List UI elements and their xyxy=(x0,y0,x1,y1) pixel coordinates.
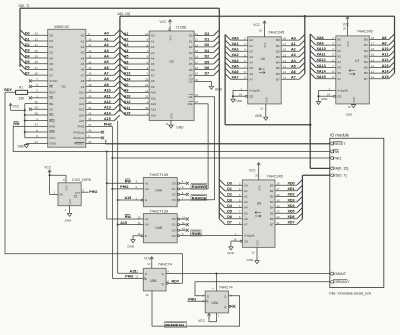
svg-text:A1: A1 xyxy=(81,39,85,43)
svg-text:11: 11 xyxy=(135,275,138,279)
U1 pin 26 D7 xyxy=(20,69,53,77)
bus D vertical right of U2 (down to U8) xyxy=(218,8,220,219)
svg-text:D0: D0 xyxy=(189,34,193,38)
svg-text:D4: D4 xyxy=(49,56,53,60)
svg-text:A13: A13 xyxy=(382,64,389,68)
svg-text:B3: B3 xyxy=(276,55,280,59)
IO module pin RESET xyxy=(330,142,346,146)
svg-text:B6: B6 xyxy=(364,71,368,75)
svg-text:A0: A0 xyxy=(244,183,248,187)
U6 pin 9 XA7 xyxy=(225,74,253,82)
svg-text:A2: A2 xyxy=(104,43,109,47)
svg-text:VCC: VCC xyxy=(49,136,56,140)
svg-text:XD[0..7]: XD[0..7] xyxy=(333,174,346,178)
U4A pin 4 O0 (nc) xyxy=(172,180,189,186)
svg-text:U1: U1 xyxy=(62,85,66,89)
U5A pin 3 C (PHI2) xyxy=(187,297,205,303)
U7 pin 16 B2 -> A10 xyxy=(364,45,394,53)
svg-text:XD4: XD4 xyxy=(288,204,295,208)
svg-text:A2: A2 xyxy=(151,45,155,49)
svg-text:A9: A9 xyxy=(151,85,155,89)
svg-text:XA7: XA7 xyxy=(232,76,239,80)
svg-text:O2: O2 xyxy=(172,193,176,197)
U4A pin 3 A1 (RW) xyxy=(107,179,149,185)
svg-text:A11: A11 xyxy=(79,96,84,100)
svg-text:PHI2: PHI2 xyxy=(125,275,133,279)
oscillator X1 CXO_DIP8 body xyxy=(58,178,91,206)
svg-text:D7: D7 xyxy=(49,73,53,77)
U1 pin 9 A0 xyxy=(81,30,120,38)
svg-text:B0: B0 xyxy=(364,38,368,42)
svg-text:PHI1out: PHI1out xyxy=(73,136,84,140)
svg-text:B6: B6 xyxy=(270,217,274,221)
svg-text:20: 20 xyxy=(259,29,263,33)
U8 pin 5 D3 xyxy=(219,196,248,204)
bus XA junction xyxy=(309,124,312,127)
svg-text:XA12: XA12 xyxy=(317,58,326,62)
svg-text:A0: A0 xyxy=(81,34,85,38)
svg-text:B0: B0 xyxy=(270,183,274,187)
svg-text:IOREADY: IOREADY xyxy=(333,280,350,284)
U6 pin 18 B0 -> A0 xyxy=(276,35,305,43)
U7 pin 19 CE to ground xyxy=(316,90,341,104)
svg-text:A1: A1 xyxy=(291,42,296,46)
svg-text:D0: D0 xyxy=(205,43,210,47)
svg-text:A7: A7 xyxy=(244,223,248,227)
svg-text:XA11: XA11 xyxy=(317,53,326,57)
svg-text:A14: A14 xyxy=(151,113,157,117)
svg-text:74HC245: 74HC245 xyxy=(357,29,373,33)
svg-text:VCC: VCC xyxy=(198,319,205,323)
svg-text:XA4: XA4 xyxy=(232,59,239,63)
svg-text:RDY: RDY xyxy=(4,88,12,92)
svg-text:A0: A0 xyxy=(291,36,296,40)
svg-text:D1: D1 xyxy=(227,187,232,191)
U4B pin 10 O2 (nc) xyxy=(172,227,189,233)
svg-text:R/W: R/W xyxy=(49,125,55,129)
svg-text:XD1: XD1 xyxy=(288,187,295,191)
U2 pin 20 CS to ground xyxy=(188,78,222,92)
svg-text:A[0..15]: A[0..15] xyxy=(118,12,130,16)
decoder U4A 74HCT139 body xyxy=(143,173,177,207)
bus XD right of U8 up to IO module xyxy=(302,175,329,219)
svg-text:REFRESH: REFRESH xyxy=(165,322,184,327)
svg-text:VCC: VCC xyxy=(253,23,260,27)
svg-text:CS: CS xyxy=(188,80,192,84)
svg-text:RAMWE: RAMWE xyxy=(192,184,208,189)
U8 pin 15 B3 -> XD3 xyxy=(270,196,303,204)
svg-text:XD3: XD3 xyxy=(288,198,295,202)
svg-text:E: E xyxy=(145,234,147,238)
svg-text:A6: A6 xyxy=(104,66,109,70)
svg-text:R1: R1 xyxy=(19,86,23,90)
svg-text:A11: A11 xyxy=(151,96,156,100)
U1 pin 3 PHI1out xyxy=(73,134,104,140)
U4A pin 5 O1 -> RAMWE xyxy=(172,185,208,191)
svg-text:RWB: RWB xyxy=(192,231,201,236)
U2 pin 8 A2 xyxy=(120,41,155,49)
svg-text:GND: GND xyxy=(265,97,268,103)
svg-text:A6: A6 xyxy=(337,71,341,75)
U5B pin 9 Q -> IOWAIT xyxy=(166,270,330,275)
svg-text:A3: A3 xyxy=(81,51,85,55)
svg-text:PHI2: PHI2 xyxy=(188,297,196,301)
U1 pin 29 D4 xyxy=(20,52,53,60)
svg-text:A13: A13 xyxy=(79,108,85,112)
svg-text:A7: A7 xyxy=(249,77,253,81)
U6 pin 14 B4 -> A4 xyxy=(276,57,305,65)
U1 pin 24 A14 xyxy=(79,109,120,117)
svg-text:XA14: XA14 xyxy=(317,69,326,73)
svg-text:A8: A8 xyxy=(382,36,387,40)
svg-text:PHI2: PHI2 xyxy=(120,185,128,189)
svg-text:VCC: VCC xyxy=(144,257,151,261)
svg-text:B6: B6 xyxy=(276,72,280,76)
U7 pin 4 XA10 xyxy=(310,45,341,53)
svg-text:B2: B2 xyxy=(270,195,274,199)
power VCC at U5B pin 10 xyxy=(144,257,153,269)
svg-text:74HCT139: 74HCT139 xyxy=(150,173,169,177)
label RAMWE xyxy=(191,183,207,189)
flip-flop U5B 74HC74 body xyxy=(143,263,172,291)
svg-text:A1: A1 xyxy=(249,44,253,48)
U6 pin 7 XA5 xyxy=(225,63,253,71)
svg-text:PHI2: PHI2 xyxy=(333,156,341,160)
svg-text:A0: A0 xyxy=(249,38,253,42)
U5B pin 11 C (PHI2) xyxy=(125,275,138,279)
svg-text:GND: GND xyxy=(236,99,244,103)
svg-text:XA9: XA9 xyxy=(317,41,324,45)
svg-text:A1: A1 xyxy=(145,181,149,185)
svg-text:A2: A2 xyxy=(337,49,341,53)
svg-text:14: 14 xyxy=(165,122,169,126)
svg-text:VCC: VCC xyxy=(249,168,256,172)
svg-text:A1: A1 xyxy=(244,189,248,193)
svg-text:PHI2: PHI2 xyxy=(78,125,85,129)
svg-text:RDY: RDY xyxy=(172,280,180,284)
U1 pin 1 VP xyxy=(29,94,53,100)
U8 pin 9 D7 xyxy=(219,219,248,227)
wire IOREADY net (IO module to U5A D) xyxy=(195,282,330,296)
svg-text:330: 330 xyxy=(18,97,24,101)
svg-text:XD0: XD0 xyxy=(288,182,295,186)
svg-text:A2: A2 xyxy=(244,195,248,199)
svg-text:XD5: XD5 xyxy=(288,210,295,214)
U1 pin 4 IRQ xyxy=(25,117,55,123)
svg-text:U5B: U5B xyxy=(150,279,157,283)
svg-text:CE: CE xyxy=(249,94,253,98)
U8 pin 1 A->B (RWB) xyxy=(235,232,254,238)
svg-text:RW: RW xyxy=(125,215,132,219)
svg-text:VCC: VCC xyxy=(347,41,350,46)
U6 pin 13 B5 -> A5 xyxy=(276,63,305,71)
svg-text:XD6: XD6 xyxy=(288,215,295,219)
svg-text:B3: B3 xyxy=(270,200,274,204)
U2 pin 16 D4 xyxy=(189,53,220,61)
svg-text:VCC: VCC xyxy=(66,185,69,190)
svg-text:74HC74: 74HC74 xyxy=(158,263,173,267)
svg-text:A10: A10 xyxy=(104,89,111,93)
U4A pin 1 E (A15) xyxy=(118,196,147,202)
svg-text:A0: A0 xyxy=(151,34,155,38)
svg-text:A5: A5 xyxy=(249,66,253,70)
svg-text:A3: A3 xyxy=(249,55,253,59)
IO module pin IOWAIT xyxy=(330,272,347,276)
U2 pin 7 A3 xyxy=(120,47,155,55)
IO module pin PHI2 xyxy=(330,156,342,160)
svg-text:A14: A14 xyxy=(79,113,85,117)
svg-text:B1: B1 xyxy=(270,189,274,193)
svg-text:GND: GND xyxy=(170,113,173,119)
svg-text:GND: GND xyxy=(353,97,356,103)
U6 pin 16 B2 -> A2 xyxy=(276,46,305,54)
svg-text:10: 10 xyxy=(348,105,352,109)
svg-text:B7: B7 xyxy=(276,77,280,81)
svg-text:O0: O0 xyxy=(172,217,176,221)
U8 pin 16 B2 -> XD2 xyxy=(270,191,303,199)
U1 pin 30 D3 xyxy=(20,47,53,55)
svg-text:A2: A2 xyxy=(81,45,85,49)
svg-text:A0: A0 xyxy=(145,223,149,227)
bus XA vertical left of U7 down to IO module xyxy=(310,34,330,169)
U1 pin 34 R/W xyxy=(13,123,55,129)
svg-text:D3: D3 xyxy=(227,198,232,202)
buffer U7 74HC245 body xyxy=(336,29,373,104)
wire PHI2 to IO module xyxy=(112,157,329,159)
svg-text:A5: A5 xyxy=(81,62,85,66)
U5B pin 12 D (A15) xyxy=(130,270,139,274)
svg-text:A12: A12 xyxy=(79,102,85,106)
U6 pin 6 XA4 xyxy=(225,57,253,65)
svg-text:U8: U8 xyxy=(257,202,261,206)
svg-text:RESET: RESET xyxy=(333,142,346,146)
svg-text:A6: A6 xyxy=(151,68,155,72)
bus A[0..15] top horizontal xyxy=(118,12,395,16)
svg-text:PHI2: PHI2 xyxy=(89,190,97,194)
U5A pin 2 D (IOREADY) xyxy=(202,294,204,298)
svg-text:U5A: U5A xyxy=(212,301,219,305)
svg-text:A9: A9 xyxy=(382,41,387,45)
svg-text:74HC245: 74HC245 xyxy=(268,30,284,34)
U1 pin 35 NC xyxy=(29,106,55,112)
U5A pin 1 CLR to VCC xyxy=(198,313,220,323)
svg-text:U7: U7 xyxy=(355,59,359,63)
svg-text:B2: B2 xyxy=(364,49,368,53)
svg-text:D3: D3 xyxy=(205,32,210,36)
svg-text:CE: CE xyxy=(244,239,248,243)
U1 pin 19 A10 xyxy=(79,87,120,95)
svg-text:D1: D1 xyxy=(205,37,210,41)
wire PHI2 net vertical xyxy=(111,126,143,278)
svg-text:A9: A9 xyxy=(104,83,109,87)
U2 pin 2 A12 xyxy=(120,98,156,106)
svg-text:VCC: VCC xyxy=(160,20,167,24)
svg-text:B1: B1 xyxy=(276,44,280,48)
svg-text:SYNC: SYNC xyxy=(49,79,58,83)
svg-text:D6: D6 xyxy=(227,215,232,219)
svg-text:A7: A7 xyxy=(81,73,85,77)
svg-text:D3: D3 xyxy=(189,51,193,55)
svg-text:A5: A5 xyxy=(151,62,155,66)
svg-text:20: 20 xyxy=(343,26,347,30)
svg-text:A3: A3 xyxy=(104,49,109,53)
U1 pin 7 SYNC xyxy=(29,77,59,83)
svg-text:IOWAIT: IOWAIT xyxy=(333,272,347,276)
svg-text:XA3: XA3 xyxy=(232,53,239,57)
U4B pin 9 O3 wire RWB to U8 xyxy=(172,232,243,238)
svg-text:B5: B5 xyxy=(364,66,368,70)
U4A pin 7 O3 -> RAMOE xyxy=(172,196,215,202)
svg-text:D5: D5 xyxy=(205,60,210,64)
wire A15 tap vertical xyxy=(117,121,144,273)
U1 pin 11 A2 xyxy=(81,41,120,49)
U7 pin 14 B4 -> A12 xyxy=(364,56,394,64)
svg-text:XA0: XA0 xyxy=(232,36,239,40)
svg-text:A3: A3 xyxy=(244,200,248,204)
U8 pin 6 D4 xyxy=(219,202,248,210)
U1 pin 13 A4 xyxy=(81,52,120,60)
svg-text:IO module: IO module xyxy=(330,133,350,138)
svg-text:A15: A15 xyxy=(382,75,389,79)
U7 pin 8 XA14 xyxy=(310,68,341,76)
U7 pin 15 B3 -> A11 xyxy=(364,51,394,59)
svg-text:GND: GND xyxy=(176,126,184,130)
svg-text:A6: A6 xyxy=(244,217,248,221)
U4B pin 12 O0 (nc) xyxy=(172,215,189,221)
svg-text:A15: A15 xyxy=(125,196,132,200)
U7 pin 2 XA8 xyxy=(310,34,341,42)
svg-text:A2: A2 xyxy=(291,48,296,52)
ground GND at U7 bottom xyxy=(346,104,356,117)
svg-text:B2: B2 xyxy=(276,49,280,53)
U2 pin 24 A9 xyxy=(120,81,155,89)
svg-text:A5: A5 xyxy=(337,66,341,70)
bus A right vertical collecting U7 outputs xyxy=(394,16,396,73)
svg-text:XA1: XA1 xyxy=(232,42,239,46)
svg-text:RAMOE: RAMOE xyxy=(192,195,207,200)
U8 pin 2 D0 xyxy=(219,180,248,188)
power VCC at U1 xyxy=(9,103,25,110)
svg-text:A7: A7 xyxy=(104,72,109,76)
U1 pin 10 A1 xyxy=(81,35,120,43)
svg-text:XA13: XA13 xyxy=(317,64,326,68)
svg-text:A15: A15 xyxy=(130,270,137,274)
svg-text:A4: A4 xyxy=(104,54,109,58)
power VCC at U8 xyxy=(249,163,260,180)
U6 pin 8 XA6 xyxy=(225,68,253,76)
U1 pin 37 PHI2 xyxy=(78,123,113,129)
U8 pin 11 B7 -> XD7 xyxy=(270,219,303,227)
U1 pin 2 RDY xyxy=(27,89,55,95)
svg-text:OE: OE xyxy=(188,95,192,99)
U8 pin 8 D6 xyxy=(219,213,248,221)
U7 pin 1 A->B xyxy=(319,87,348,93)
U6 pin 1 A->B xyxy=(233,87,260,93)
flip-flop U5A 74HC74 body xyxy=(205,285,233,313)
svg-text:B7: B7 xyxy=(270,223,274,227)
svg-text:A0: A0 xyxy=(337,38,341,42)
U1 pin 20 A11 xyxy=(79,92,120,100)
svg-text:PHI2out: PHI2out xyxy=(73,130,84,134)
svg-text:A15: A15 xyxy=(79,119,85,123)
svg-text:D3: D3 xyxy=(49,51,53,55)
svg-text:74HC74: 74HC74 xyxy=(219,285,234,289)
U6 pin 3 XA1 xyxy=(225,40,253,48)
svg-text:B4: B4 xyxy=(270,206,274,210)
svg-text:O3: O3 xyxy=(172,198,176,202)
U7 pin 3 XA9 xyxy=(310,40,341,48)
U6 pin 15 B3 -> A3 xyxy=(276,51,305,59)
svg-text:CXO_DIP8: CXO_DIP8 xyxy=(72,178,91,182)
svg-text:A5: A5 xyxy=(244,211,248,215)
svg-text:A-&gt;B: A-&gt;B xyxy=(244,234,254,238)
svg-text:B5: B5 xyxy=(270,211,274,215)
svg-text:GND: GND xyxy=(227,251,235,255)
svg-text:D2: D2 xyxy=(227,193,232,197)
U4B pin 14 A0 (A15) xyxy=(118,221,149,227)
svg-text:A6: A6 xyxy=(81,68,85,72)
svg-text:A1: A1 xyxy=(104,37,109,41)
resistor R1 330 xyxy=(5,86,27,101)
U2 pin 25 A8 xyxy=(120,75,155,83)
svg-text:GND: GND xyxy=(246,258,254,262)
svg-text:B7: B7 xyxy=(364,77,368,81)
svg-text:A4: A4 xyxy=(249,61,253,65)
U1 pin 32 D1 xyxy=(20,35,53,43)
svg-text:A13: A13 xyxy=(104,106,111,110)
power VCC at U2 xyxy=(160,20,172,32)
U2 pin 3 A7 xyxy=(120,70,155,78)
U6 pin 19 CE to ground xyxy=(231,90,254,103)
svg-text:GND: GND xyxy=(127,245,135,249)
decoder U4B 74HCT139 body xyxy=(143,209,177,242)
bus junction A/U6 xyxy=(304,15,307,18)
label RWB xyxy=(191,230,201,236)
svg-text:28: 28 xyxy=(168,27,172,31)
svg-text:O0: O0 xyxy=(172,181,176,185)
svg-text:VCC: VCC xyxy=(170,35,173,40)
U2 pin 21 A10 xyxy=(120,87,156,95)
U1 pin 38 SO xyxy=(25,111,54,117)
U1 pin 18 A9 xyxy=(81,81,120,89)
U2 pin 10 A0 xyxy=(120,30,155,38)
svg-text:GND: GND xyxy=(49,142,57,146)
U2 pin 19 D7 xyxy=(189,70,220,78)
svg-text:D4: D4 xyxy=(189,56,193,60)
IO module pin RW xyxy=(330,150,340,154)
label RAMOE xyxy=(191,194,207,200)
U8 pin 13 B5 -> XD5 xyxy=(270,208,303,216)
svg-text:A4: A4 xyxy=(244,206,248,210)
svg-text:A4: A4 xyxy=(291,59,296,63)
U1 pin 12 A3 xyxy=(81,47,120,55)
U5A pin 6 Qbar (nc) xyxy=(229,304,236,308)
svg-text:GND: GND xyxy=(257,240,260,246)
bus A vertical collecting U6 outputs xyxy=(304,16,306,73)
U1 pin 39 PHI2out xyxy=(73,129,104,135)
U2 pin 1 A14 xyxy=(120,109,156,117)
svg-text:D7: D7 xyxy=(189,74,193,78)
svg-text:XA10: XA10 xyxy=(317,47,326,51)
svg-text:O1: O1 xyxy=(172,187,176,191)
svg-text:D6: D6 xyxy=(189,68,193,72)
svg-text:A10: A10 xyxy=(151,91,157,95)
U2 pin 5 A5 xyxy=(120,58,155,66)
U8 pin 4 D2 xyxy=(219,191,248,199)
svg-text:A-&gt;B: A-&gt;B xyxy=(337,89,347,93)
svg-text:D5: D5 xyxy=(227,210,232,214)
svg-text:D4: D4 xyxy=(205,49,210,53)
